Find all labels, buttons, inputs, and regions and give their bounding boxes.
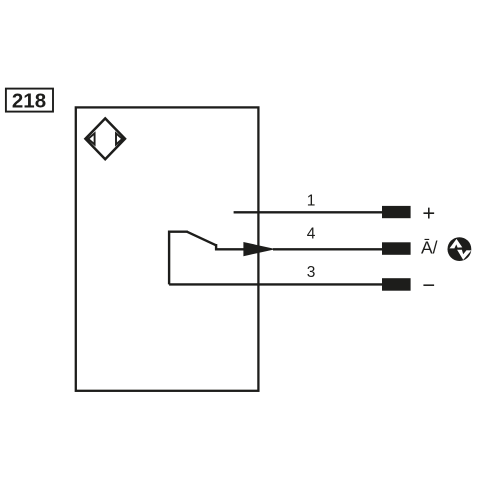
label plus bbox=[422, 200, 435, 225]
wire segment from switch to arrow bbox=[215, 248, 246, 250]
wire 4 bbox=[273, 248, 383, 250]
pin number 1 bbox=[307, 192, 316, 209]
svg-text:218: 218 bbox=[12, 89, 46, 112]
switch element inside sensor bbox=[169, 232, 216, 285]
svg-text:+: + bbox=[422, 200, 435, 225]
sensor symbol right triangle bbox=[116, 133, 122, 144]
pin number 4 bbox=[307, 225, 316, 242]
svg-text:4: 4 bbox=[307, 225, 316, 242]
wire 3 bbox=[169, 283, 383, 285]
pin number 3 bbox=[307, 264, 316, 281]
terminal 4 bbox=[382, 242, 411, 255]
wire 1 bbox=[234, 211, 383, 213]
sensor body outline bbox=[76, 107, 259, 390]
sensor symbol left triangle bbox=[88, 133, 94, 144]
svg-text:Ā/: Ā/ bbox=[421, 237, 438, 257]
label minus bbox=[422, 272, 435, 297]
svg-text:3: 3 bbox=[307, 264, 316, 281]
antivalent output icon bbox=[448, 237, 472, 261]
svg-text:1: 1 bbox=[307, 192, 316, 209]
output arrow on wire 4 bbox=[243, 242, 275, 256]
proximity sensor symbol (diamond) bbox=[85, 118, 125, 159]
terminal 1 bbox=[382, 206, 411, 218]
terminal 3 bbox=[382, 278, 411, 291]
label A-bar output bbox=[421, 237, 438, 257]
svg-text:−: − bbox=[422, 272, 435, 297]
figure number label 218 bbox=[6, 89, 53, 113]
